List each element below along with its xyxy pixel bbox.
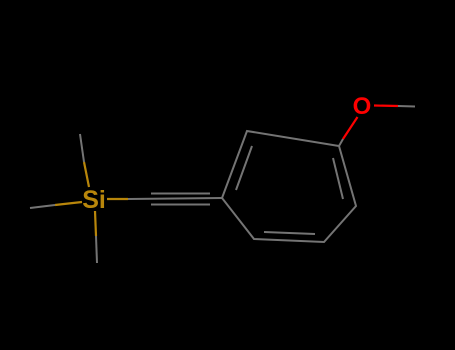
bond Si-CH3 top (Si half, goldenrod) <box>84 162 89 187</box>
bond Si-CH3 down (Si half, goldenrod) <box>95 211 96 236</box>
bond O-ring (O half, red) <box>343 117 358 139</box>
benzene ring outline <box>222 131 356 242</box>
aromatic inner bond e1 <box>236 146 252 190</box>
bond Si-C1 (Si half, goldenrod) <box>107 198 128 200</box>
bond Si-CH3 left (Si half, goldenrod) <box>55 202 82 205</box>
bond Si-CH3 top (C half, gray) <box>80 134 84 162</box>
bond Si-C1 (C half, gray) + alkyne main line to ring <box>128 198 222 199</box>
triple bond upper parallel <box>151 193 210 195</box>
aromatic inner bond e5 <box>264 232 315 234</box>
aromatic inner bond e3 <box>333 158 343 199</box>
svg-text:O: O <box>353 93 372 120</box>
bond Si-CH3 left (C half, gray) <box>30 205 55 208</box>
triple bond lower parallel <box>151 204 210 206</box>
bond Si-CH3 down (C half, gray) <box>96 236 97 263</box>
bond O-CH3 (C half, gray) <box>398 105 415 108</box>
bond O-ring (C half, gray) <box>339 139 343 146</box>
bond O-CH3 (O half, red) <box>374 104 398 107</box>
svg-text:Si: Si <box>82 186 106 214</box>
